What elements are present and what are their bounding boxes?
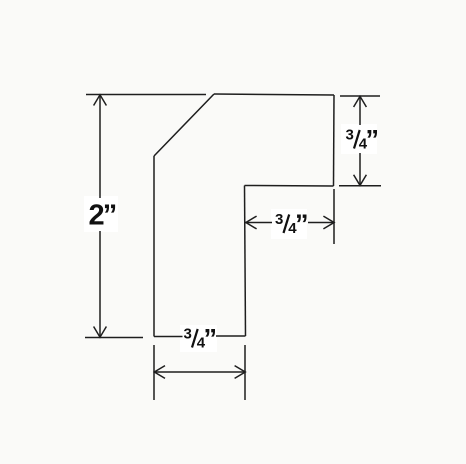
dim line left segment bbox=[246, 222, 272, 224]
inner horizontal edge bbox=[245, 185, 334, 188]
svg-text:”: ” bbox=[204, 324, 218, 354]
arrow up bbox=[354, 96, 367, 107]
dim line lower segment bbox=[99, 231, 101, 338]
svg-text:”: ” bbox=[103, 200, 118, 232]
arrow down bbox=[94, 327, 107, 338]
extension line top bbox=[86, 94, 206, 96]
extension line top bbox=[340, 95, 380, 97]
shape: L-profile outline bbox=[154, 94, 334, 337]
arrow right bbox=[235, 366, 246, 379]
dim line upper segment bbox=[359, 96, 361, 125]
arrow up bbox=[94, 95, 107, 106]
dim line upper segment bbox=[99, 95, 101, 199]
right edge bbox=[333, 95, 336, 186]
svg-text:3: 3 bbox=[184, 326, 192, 343]
svg-text:3: 3 bbox=[275, 211, 283, 228]
svg-text:”: ” bbox=[295, 209, 309, 239]
extension line right vertical bbox=[244, 345, 246, 400]
left edge bbox=[153, 156, 155, 337]
svg-text:”: ” bbox=[366, 125, 380, 155]
extension line right vertical bbox=[333, 189, 335, 244]
bottom edge right part bbox=[216, 335, 246, 337]
dimension: 3/4 inch right vertical bbox=[339, 96, 381, 186]
arrow left bbox=[246, 216, 257, 229]
bottom edge left part bbox=[154, 336, 183, 338]
arrow right bbox=[323, 216, 334, 229]
dim line right segment bbox=[308, 222, 334, 224]
label 3/4 inch bottom (sits on bottom edge of shape) bbox=[184, 324, 218, 354]
chamfer edge bbox=[154, 94, 214, 156]
label 3/4 inch right bbox=[346, 125, 380, 155]
extension line left vertical bbox=[153, 345, 155, 400]
label 3/4 inch middle bbox=[275, 209, 309, 239]
svg-text:3: 3 bbox=[346, 127, 354, 144]
extension line bottom bbox=[339, 185, 381, 187]
dimension: 2 inch height bbox=[85, 95, 206, 338]
dim line bbox=[154, 371, 245, 373]
dim line lower segment bbox=[359, 153, 361, 186]
dimension: 3/4 inch middle horizontal bbox=[246, 189, 335, 244]
arrow left bbox=[154, 366, 165, 379]
arrow down bbox=[354, 175, 367, 186]
inner vertical edge bbox=[245, 186, 246, 337]
extension line bottom bbox=[85, 337, 143, 339]
label background patches bbox=[84, 196, 118, 232]
dimension: 3/4 inch bottom horizontal bbox=[154, 345, 245, 400]
top edge bbox=[214, 94, 334, 95]
